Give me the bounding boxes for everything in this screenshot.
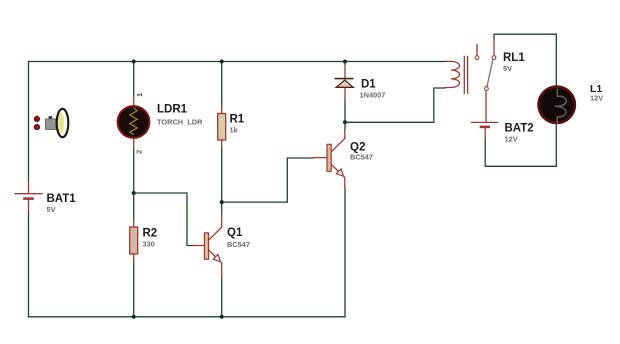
svg-text:BC547: BC547 xyxy=(227,240,250,249)
svg-text:TORCH_LDR: TORCH_LDR xyxy=(157,117,203,126)
svg-text:5V: 5V xyxy=(503,64,512,73)
svg-text:1N4007: 1N4007 xyxy=(360,90,386,99)
svg-text:330: 330 xyxy=(143,239,155,248)
svg-text:BAT1: BAT1 xyxy=(47,193,77,205)
svg-text:LDR1: LDR1 xyxy=(157,103,188,115)
svg-text:BC547: BC547 xyxy=(350,152,373,161)
svg-text:R2: R2 xyxy=(143,228,158,240)
svg-text:5V: 5V xyxy=(47,205,56,214)
svg-text:1k: 1k xyxy=(230,125,239,134)
svg-text:RL1: RL1 xyxy=(503,52,525,64)
svg-text:12V: 12V xyxy=(505,135,518,144)
svg-text:R1: R1 xyxy=(230,114,245,126)
svg-text:1: 1 xyxy=(137,93,144,97)
svg-text:12V: 12V xyxy=(590,93,603,102)
svg-text:D1: D1 xyxy=(361,79,376,91)
svg-text:Q1: Q1 xyxy=(227,227,243,239)
svg-text:2: 2 xyxy=(135,150,144,154)
svg-text:BAT2: BAT2 xyxy=(505,123,534,135)
